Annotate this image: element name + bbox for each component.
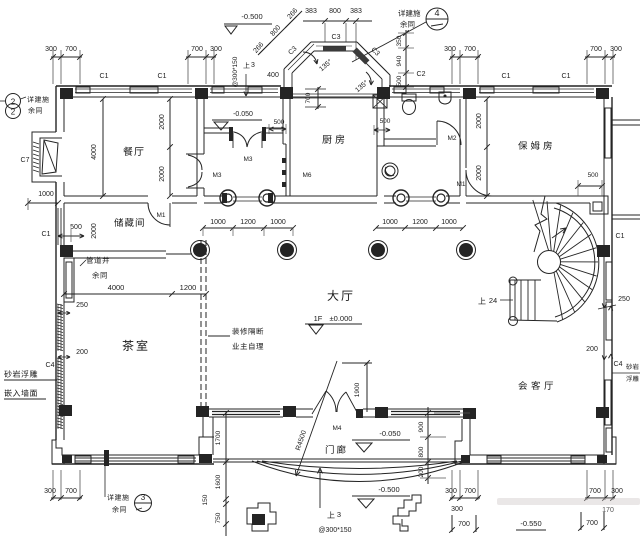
svg-text:2000: 2000: [91, 223, 98, 239]
dim 700 bay vertical: [317, 87, 319, 109]
svg-text:300: 300: [445, 488, 457, 495]
left wall window C1 glazing: [57, 208, 59, 245]
porch up3 leader: [319, 470, 321, 508]
reception window C5 glazing: [487, 457, 585, 459]
round column P4: [457, 241, 476, 260]
tea room window C5 glazing: [75, 457, 196, 459]
bottom-left corner pier: [52, 440, 64, 464]
dim chain 350/940/500 right of bay: [405, 30, 407, 93]
kitchen south wall: [290, 195, 377, 197]
svg-text:1900: 1900: [354, 382, 361, 397]
svg-text:800: 800: [418, 446, 425, 457]
column K: [283, 406, 296, 417]
room label porch: [326, 445, 346, 454]
column I: [59, 405, 72, 416]
sandstone relief note left line2: [4, 389, 37, 396]
detail bubble 3 bottom: [104, 466, 106, 497]
black pad tea SW: [62, 455, 72, 463]
room label dining: [123, 147, 143, 156]
diagonal dim 266/800/266 along bay slope: [258, 11, 302, 55]
svg-text:4000: 4000: [91, 144, 98, 160]
partition annotation leader: [208, 335, 230, 337]
bay angle arc left 135: [303, 52, 317, 64]
window C1 glazing E-F: [479, 88, 594, 90]
hall north threshold east: [406, 196, 436, 198]
svg-text:3: 3: [337, 510, 341, 519]
window C1 glazing B-C: [210, 88, 278, 90]
dim chain 700/300 top grid F: [585, 56, 615, 58]
column L: [375, 407, 388, 418]
svg-text:300: 300: [44, 488, 56, 495]
svg-text:300: 300: [444, 46, 456, 53]
top exterior wall inner line: [64, 96, 604, 98]
svg-text:1600: 1600: [215, 474, 222, 489]
svg-text:1000: 1000: [441, 219, 457, 226]
bay right diagonal wall: [357, 42, 390, 75]
column H: [597, 245, 610, 257]
round column P3: [369, 241, 388, 260]
svg-text:1000: 1000: [38, 191, 54, 198]
svg-text:2: 2: [11, 108, 16, 117]
svg-text:500: 500: [70, 224, 82, 231]
svg-text:1000: 1000: [270, 219, 286, 226]
svg-text:700: 700: [191, 46, 203, 53]
svg-text:700: 700: [65, 46, 77, 53]
dashed partition tea room: [200, 240, 202, 406]
room label hall: [328, 290, 353, 301]
bay left vertical wall: [283, 69, 285, 87]
floor drain fixture: [382, 163, 398, 179]
svg-text:C1: C1: [502, 73, 511, 80]
bottom-mid dim extensions: [451, 470, 453, 500]
svg-text:700: 700: [586, 520, 598, 527]
svg-text:-0.500: -0.500: [241, 12, 262, 21]
svg-text:C7: C7: [21, 157, 30, 164]
bay top window sash dark: [323, 46, 346, 51]
left wall window C4 upper hatch: [57, 304, 63, 306]
bay right vertical wall: [389, 75, 391, 87]
left wall mid: [55, 182, 57, 440]
svg-text:700: 700: [464, 46, 476, 53]
dim extension lines top grid F: [586, 50, 588, 84]
stair newel top: [509, 277, 517, 285]
hall south wall west segment: [209, 408, 283, 410]
sandstone relief note left line1: [4, 370, 37, 377]
door M6 track ticks: [282, 158, 286, 163]
door M4 left leaf: [312, 391, 326, 414]
room label kitchen: [322, 135, 344, 144]
dim 700 bracket bottom-right: [580, 512, 582, 530]
bottom-right dim extensions: [586, 470, 588, 500]
door M3 dining arcs: [188, 155, 202, 170]
ring column R2: [259, 190, 275, 206]
watermark smear: [497, 498, 640, 505]
partition annotation text: [232, 328, 263, 335]
section step symbol bottom-mid: [398, 495, 421, 516]
reception west wall: [461, 419, 463, 441]
C7 window hatch: [33, 142, 39, 144]
dim chain 900/800/200 porch east: [427, 407, 429, 484]
stair label up24: [478, 297, 485, 304]
dim chain 1000/1200/1000 east: [376, 227, 463, 229]
svg-text:-0.550: -0.550: [520, 519, 541, 528]
svg-text:1200: 1200: [180, 283, 197, 292]
svg-text:2: 2: [11, 98, 16, 107]
svg-text:C1: C1: [100, 73, 109, 80]
svg-text:C1: C1: [158, 73, 167, 80]
ring column R1: [220, 190, 236, 206]
storage top wall: [64, 195, 148, 197]
column C: [280, 87, 293, 99]
dim 2000 dining right vertical line: [169, 99, 171, 196]
dim extension lines top grid A: [52, 50, 54, 84]
spiral stair outer arc: [556, 203, 599, 322]
dim chain 300/700 bottom-mid: [450, 497, 480, 499]
column A: [60, 88, 73, 99]
reception bottom wall: [455, 463, 616, 465]
svg-text:C4: C4: [614, 361, 623, 368]
door M1 nanny leaf and arc: [465, 170, 467, 196]
svg-text:700: 700: [65, 488, 77, 495]
bath-nanny wall: [459, 99, 461, 196]
svg-text:700: 700: [464, 488, 476, 495]
svg-text:-0.050: -0.050: [379, 429, 400, 438]
right wall stub lower: [612, 214, 640, 216]
svg-text:2000: 2000: [159, 114, 166, 130]
top exterior wall outer line: [56, 85, 281, 87]
svg-text:300: 300: [610, 46, 622, 53]
svg-text:C3: C3: [332, 34, 341, 41]
stair break line: [534, 196, 547, 252]
dim chain 300/700 top-left: [51, 56, 82, 58]
svg-text:383: 383: [350, 8, 362, 15]
bay angle arc right 135: [366, 72, 371, 85]
ring column R4: [433, 190, 449, 206]
column D: [377, 87, 390, 99]
spiral stair treads: [554, 272, 563, 319]
svg-text:M3: M3: [243, 156, 252, 163]
column B: [195, 88, 208, 99]
storage bottom wall: [64, 250, 166, 252]
left wall pipe-shaft box: [64, 258, 74, 302]
dim 1900 porch: [342, 362, 372, 364]
svg-text:500: 500: [396, 75, 403, 86]
svg-text:1200: 1200: [240, 219, 256, 226]
bay left diagonal wall: [284, 42, 311, 69]
dim extension marks west chain: [202, 228, 204, 236]
column J: [196, 406, 209, 417]
bay right window sash dark: [353, 48, 370, 65]
hall north wall short segments: [384, 195, 396, 197]
svg-text:C2: C2: [417, 71, 426, 78]
svg-text:150: 150: [202, 494, 209, 505]
dim extension lines top grid E: [451, 50, 453, 84]
hall south wall center-right segment: [363, 408, 375, 410]
nanny south wall: [466, 195, 590, 197]
black pad tea SE: [199, 454, 212, 463]
toilet bowl: [403, 100, 416, 115]
door M1 storage leaf and arc: [169, 203, 171, 227]
black pad reception SW: [461, 455, 470, 463]
svg-text:C1: C1: [42, 231, 51, 238]
dim extension lines top grid B: [187, 50, 189, 84]
svg-text:200: 200: [76, 349, 88, 356]
svg-text:200: 200: [418, 466, 425, 477]
pipe shaft label: [86, 257, 109, 264]
dining-vestibule wall: [196, 99, 198, 196]
column M: [463, 408, 476, 419]
svg-text:300: 300: [451, 506, 463, 513]
C7 chimney flue: [42, 140, 58, 174]
svg-text:700: 700: [458, 521, 470, 528]
svg-text:3: 3: [251, 62, 255, 69]
vestibule north wall segments: [204, 127, 231, 129]
svg-text:M1: M1: [456, 181, 465, 188]
dim line 383/800/383 above bay: [303, 20, 372, 22]
tea room bottom wall: [52, 463, 214, 465]
reception SW corner pier: [455, 441, 462, 464]
svg-text:700: 700: [589, 488, 601, 495]
dim chain 300/700 bottom-left: [51, 497, 82, 499]
left wall window C4 lower hatch: [57, 358, 63, 360]
spiral stair straight flight: [510, 279, 541, 281]
svg-text:M2: M2: [447, 135, 456, 142]
tea room SE corner pier: [199, 437, 214, 455]
bathroom south wall: [384, 138, 436, 140]
room label nanny: [518, 141, 552, 150]
round column P1: [191, 241, 210, 260]
right exterior wall: [611, 97, 613, 455]
dim 4000 dining vertical: [102, 99, 104, 196]
bay dim extension verticals: [324, 23, 326, 42]
svg-text:2000: 2000: [159, 166, 166, 182]
porch steps arc inner: [262, 461, 457, 468]
svg-text:300: 300: [210, 46, 222, 53]
left exterior wall top: [55, 86, 57, 132]
column F: [596, 88, 609, 99]
dim chain porch west 1700/1600/150/750: [225, 412, 227, 536]
right wall window frames: [605, 108, 611, 158]
black pad porch SW: [199, 454, 212, 463]
svg-text:300: 300: [611, 488, 623, 495]
svg-text:940: 940: [396, 55, 403, 66]
black pad reception SE: [597, 455, 607, 463]
svg-text:350: 350: [396, 35, 403, 46]
door M3 dining jambs: [186, 153, 204, 155]
section key symbol bottom-left: [247, 503, 276, 531]
svg-text:250: 250: [76, 302, 88, 309]
nanny shaft box: [590, 196, 608, 214]
svg-text:M1: M1: [156, 212, 165, 219]
vestibule-kitchen wall: [282, 99, 284, 144]
svg-text:2000: 2000: [476, 165, 483, 181]
reception SE corner pier: [604, 437, 616, 464]
round column P2: [278, 241, 297, 260]
ring column R3: [393, 190, 409, 206]
dim 700 bracket bottom-mid: [451, 515, 453, 532]
window C1 glazing A-B: [75, 88, 192, 90]
svg-text:4000: 4000: [108, 283, 125, 292]
R4500 leader line: [296, 361, 337, 476]
door M4 right leaf: [346, 392, 358, 414]
porch west wall: [199, 417, 203, 455]
toilet tank: [402, 94, 416, 101]
svg-text:500: 500: [380, 118, 391, 125]
column E: [463, 88, 476, 99]
door M3 vestibule leaves and arcs: [232, 131, 234, 148]
door M4 jamb dark: [356, 409, 363, 418]
spiral stair outer rail arc: [554, 208, 595, 317]
svg-text:300: 300: [45, 46, 57, 53]
svg-text:1000: 1000: [210, 219, 226, 226]
bay glazing inner lines: [316, 45, 352, 47]
column G: [60, 245, 73, 257]
room label reception: [518, 381, 553, 390]
svg-text:750: 750: [215, 512, 222, 523]
svg-text:1200: 1200: [412, 219, 428, 226]
bay threshold at wall line: [293, 93, 377, 95]
svg-text:4: 4: [434, 8, 439, 18]
svg-text:700: 700: [305, 92, 312, 103]
hall south wall center-left segment: [296, 408, 313, 410]
svg-text:@300*150: @300*150: [232, 56, 239, 87]
stair direction arrow: [552, 228, 566, 238]
svg-text:-0.050: -0.050: [233, 111, 253, 118]
svg-text:250: 250: [618, 296, 630, 303]
detail bubble 4 with leader: [426, 8, 448, 30]
vestibule south wall stubs: [204, 195, 222, 197]
dim 2000 nanny vertical line: [486, 99, 488, 196]
svg-text:±0.000: ±0.000: [330, 314, 353, 323]
svg-text:1000: 1000: [382, 219, 398, 226]
svg-text:500: 500: [588, 172, 599, 179]
svg-text:C1: C1: [616, 233, 625, 240]
svg-text:@300*150: @300*150: [318, 527, 351, 534]
svg-text:M6: M6: [302, 172, 311, 179]
column N: [596, 407, 609, 418]
svg-text:1F: 1F: [314, 314, 323, 323]
stair newel bottom: [509, 317, 518, 326]
door M3 vestibule jambs: [229, 127, 233, 141]
dim chain 700/300 bottom-right: [585, 497, 615, 499]
svg-text:C4: C4: [46, 362, 55, 369]
bathroom duct box: [373, 95, 387, 108]
spiral stair inner eye: [538, 251, 561, 274]
hall south wall east segment: [388, 408, 463, 410]
porch steps arc middle: [257, 461, 462, 474]
svg-text:200: 200: [586, 346, 598, 353]
kitchen-bath wall: [376, 99, 378, 196]
svg-text:3: 3: [141, 493, 146, 502]
room label tea: [122, 340, 147, 351]
svg-text:800: 800: [329, 8, 341, 15]
svg-text:900: 900: [418, 421, 425, 432]
svg-text:1700: 1700: [215, 430, 222, 445]
dim chain 700/300 top grid B: [186, 56, 216, 58]
C7 chimney bay outline: [32, 132, 56, 182]
bottom-left dim extensions: [52, 470, 54, 500]
porch steps arc outer: [252, 461, 466, 481]
svg-text:400: 400: [267, 72, 279, 79]
svg-text:-0.500: -0.500: [378, 485, 399, 494]
svg-text:24: 24: [489, 296, 497, 305]
svg-text:2000: 2000: [476, 113, 483, 129]
detail bubble 2-2 left: [6, 94, 21, 109]
dim chain 300/700 top grid E: [450, 56, 480, 58]
porch up3 label: [327, 511, 334, 518]
svg-text:M4: M4: [332, 425, 341, 432]
window C5 mullion tick: [104, 450, 109, 466]
vestibule south threshold: [233, 196, 262, 198]
bay top wall: [311, 41, 357, 43]
sandstone relief note right: [612, 372, 640, 374]
door M2 leaf and arc: [436, 121, 438, 145]
dim chain 1000/1200/1000 west: [203, 227, 293, 229]
right wall stub upper: [612, 119, 640, 121]
window C1 glazing D-E: [392, 88, 460, 90]
room label storage: [114, 218, 143, 227]
threshold jamb ticks: [222, 193, 227, 203]
svg-text:M3: M3: [212, 172, 221, 179]
porch floor south edge: [213, 458, 470, 460]
svg-text:383: 383: [305, 8, 317, 15]
dim chain 4000/1200 tea room: [64, 293, 206, 295]
svg-text:C1: C1: [562, 73, 571, 80]
wash basin small: [439, 92, 451, 104]
svg-text:700: 700: [590, 46, 602, 53]
